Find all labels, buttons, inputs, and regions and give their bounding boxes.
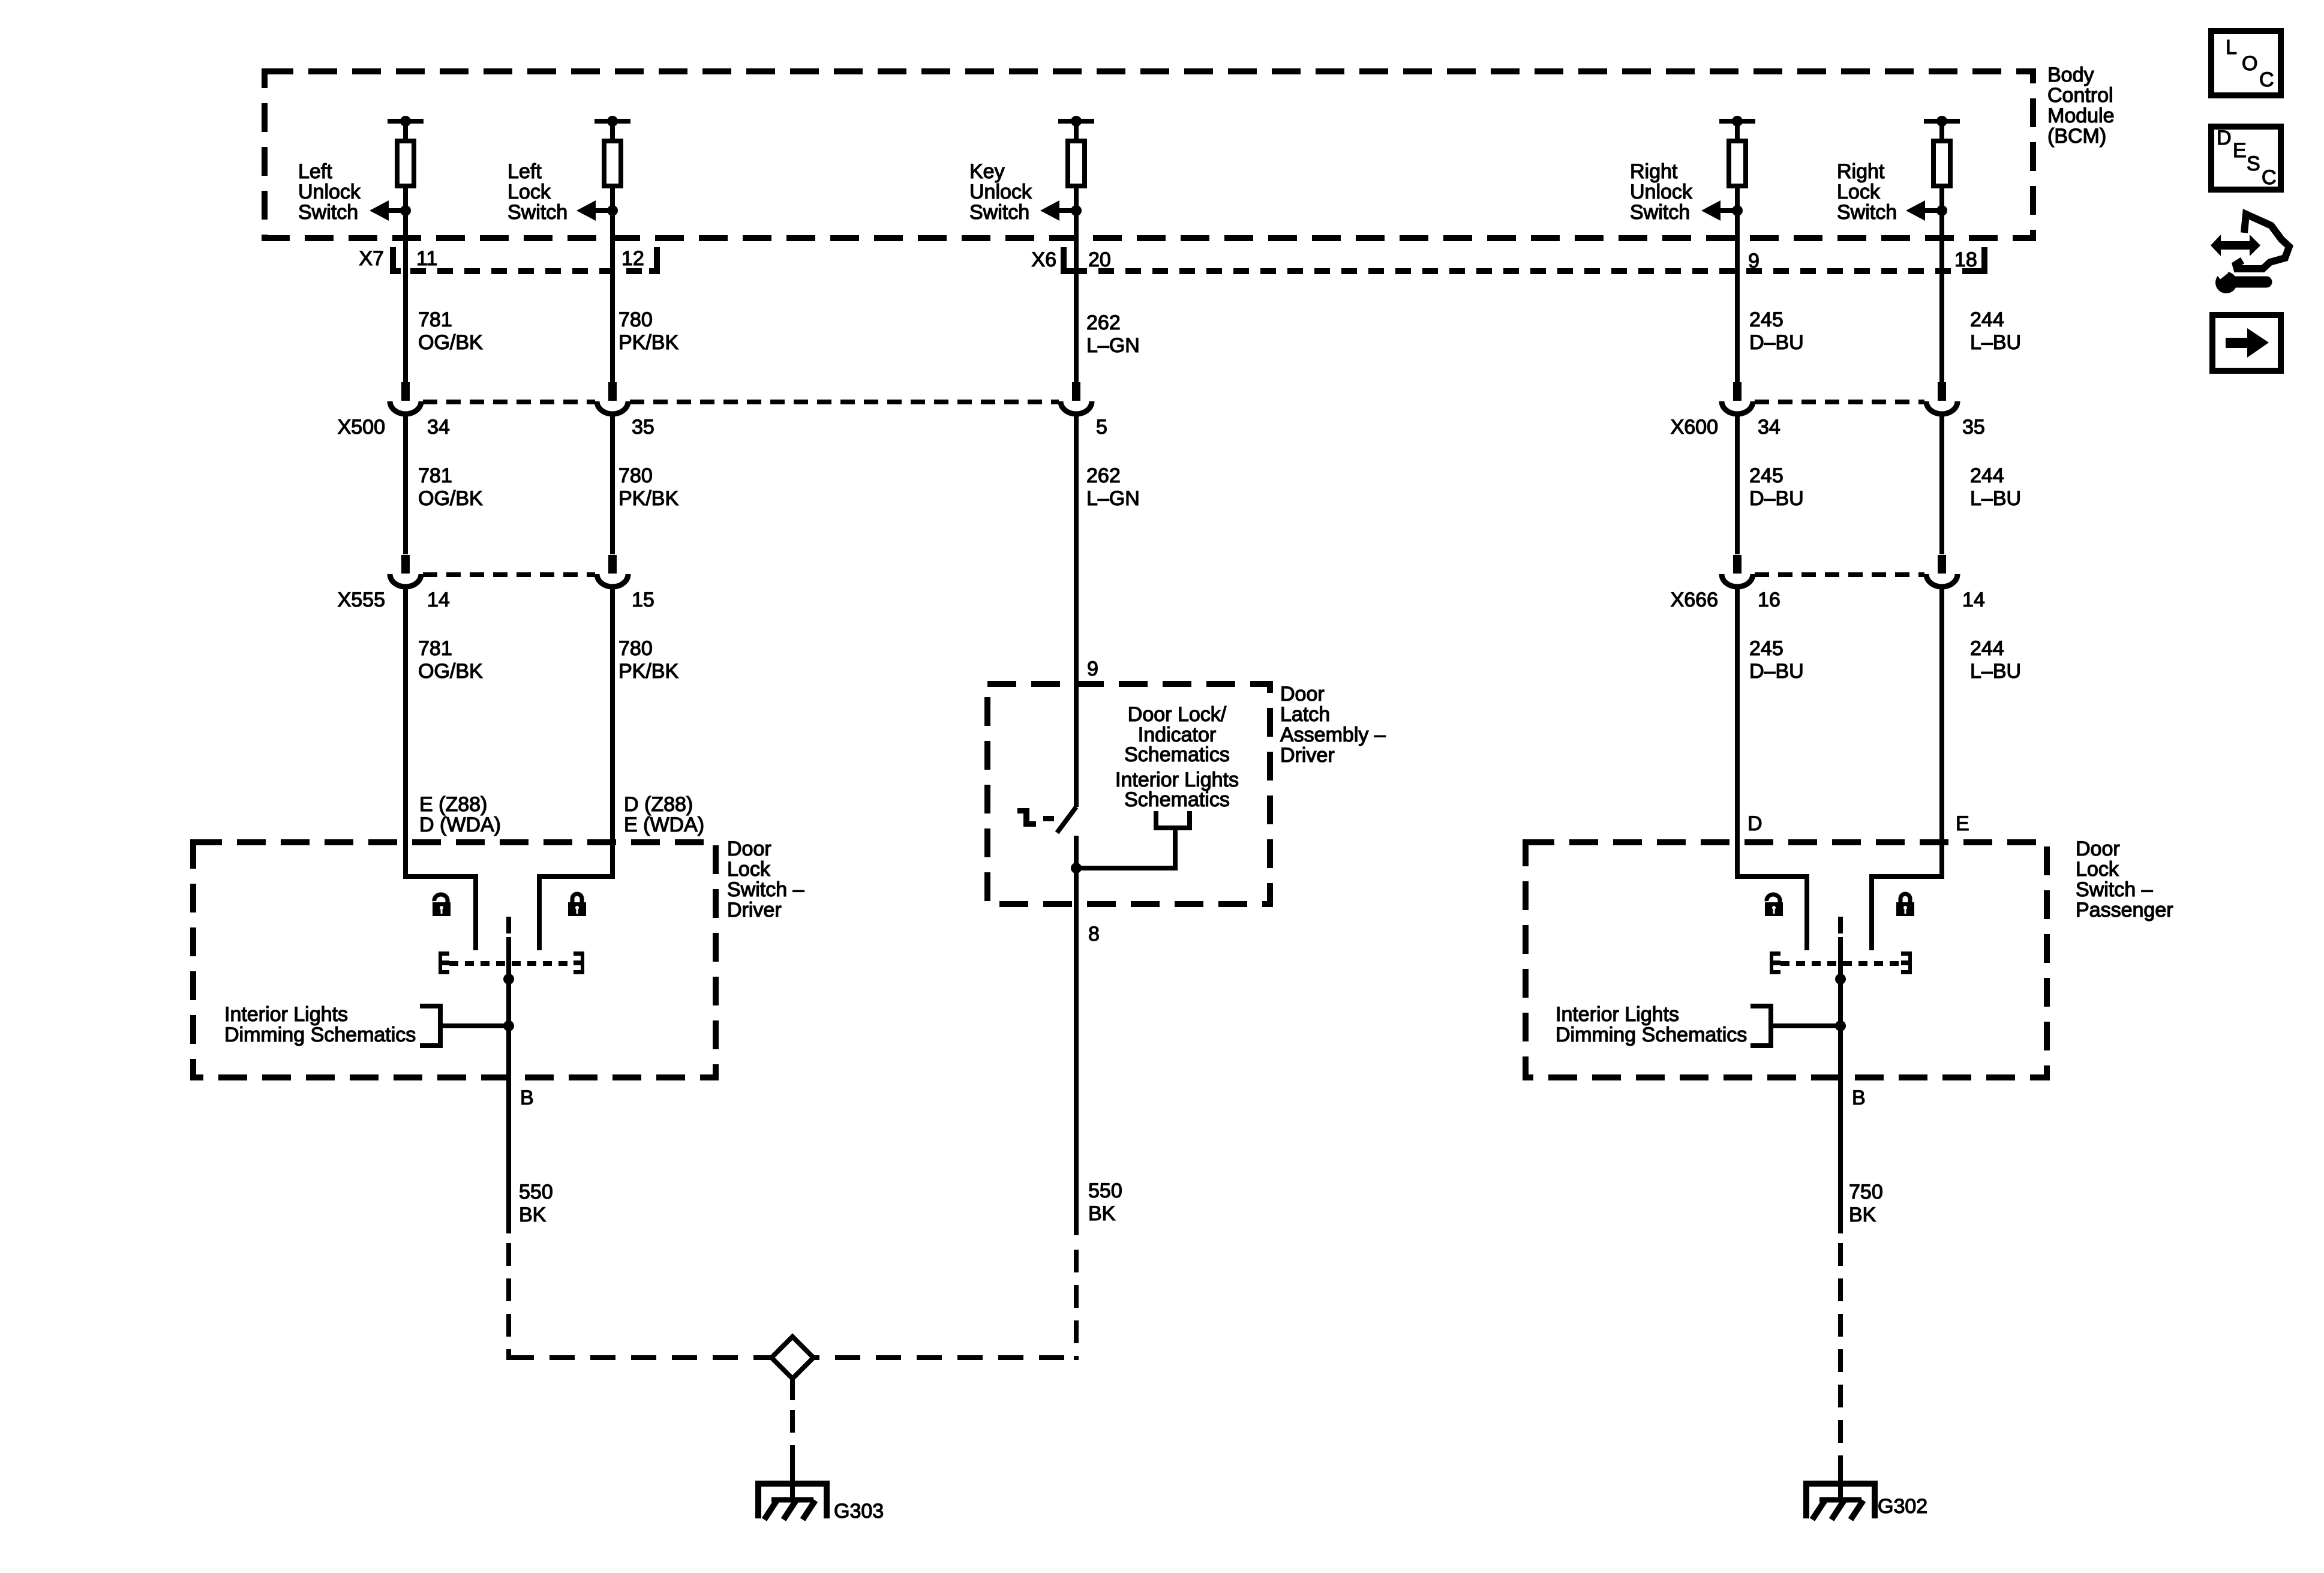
svg-text:Dimming Schematics: Dimming Schematics <box>224 1023 416 1046</box>
svg-text:35: 35 <box>1962 416 1985 439</box>
svg-text:Door: Door <box>2076 837 2120 860</box>
svg-text:Switch: Switch <box>1837 201 1897 224</box>
svg-text:L–BU: L–BU <box>1970 660 2021 683</box>
svg-text:D: D <box>1747 812 1762 835</box>
svg-text:X666: X666 <box>1671 589 1718 611</box>
svg-text:245: 245 <box>1749 308 1783 331</box>
svg-text:9: 9 <box>1748 250 1759 272</box>
svg-text:Switch –: Switch – <box>727 878 804 901</box>
svg-text:35: 35 <box>632 416 654 439</box>
svg-text:D: D <box>2217 127 2232 149</box>
svg-text:B: B <box>1852 1086 1866 1109</box>
svg-text:L: L <box>2226 36 2237 59</box>
svg-text:O: O <box>2242 52 2257 75</box>
svg-text:262: 262 <box>1086 311 1121 334</box>
svg-text:550: 550 <box>519 1181 553 1203</box>
svg-text:Door: Door <box>1280 683 1325 706</box>
svg-text:Assembly –: Assembly – <box>1280 724 1386 746</box>
svg-text:E: E <box>1956 812 1969 835</box>
svg-text:12: 12 <box>621 247 644 270</box>
svg-text:Body: Body <box>2047 64 2094 86</box>
svg-text:L–GN: L–GN <box>1086 334 1140 357</box>
svg-text:D (Z88): D (Z88) <box>624 793 693 816</box>
svg-text:750: 750 <box>1849 1181 1883 1203</box>
svg-text:Right: Right <box>1630 160 1678 183</box>
svg-text:9: 9 <box>1087 658 1098 680</box>
svg-text:781: 781 <box>418 308 452 331</box>
svg-text:PK/BK: PK/BK <box>618 331 678 354</box>
svg-text:262: 262 <box>1086 464 1121 487</box>
svg-text:(BCM): (BCM) <box>2047 125 2106 148</box>
svg-text:Driver: Driver <box>727 899 782 921</box>
svg-text:15: 15 <box>632 589 654 611</box>
svg-text:D–BU: D–BU <box>1749 660 1804 683</box>
svg-text:X555: X555 <box>338 589 385 611</box>
svg-text:780: 780 <box>618 637 653 660</box>
svg-text:E: E <box>2233 139 2247 162</box>
svg-text:Control: Control <box>2047 84 2113 107</box>
svg-text:780: 780 <box>618 308 653 331</box>
svg-text:Lock: Lock <box>1837 181 1881 203</box>
svg-text:Lock: Lock <box>727 858 771 881</box>
svg-text:245: 245 <box>1749 464 1783 487</box>
svg-text:D (WDA): D (WDA) <box>419 813 501 836</box>
svg-text:244: 244 <box>1970 308 2004 331</box>
svg-text:D–BU: D–BU <box>1749 331 1804 354</box>
svg-text:Latch: Latch <box>1280 703 1330 726</box>
svg-text:Switch: Switch <box>298 201 358 224</box>
svg-text:OG/BK: OG/BK <box>418 487 483 510</box>
svg-text:G302: G302 <box>1878 1495 1927 1518</box>
svg-text:Key: Key <box>969 160 1005 183</box>
svg-text:34: 34 <box>427 416 450 439</box>
svg-text:Driver: Driver <box>1280 744 1335 767</box>
svg-text:G303: G303 <box>834 1500 884 1523</box>
svg-text:Lock: Lock <box>508 181 551 203</box>
svg-text:781: 781 <box>418 464 452 487</box>
svg-text:14: 14 <box>427 589 450 611</box>
svg-text:B: B <box>520 1086 534 1109</box>
svg-text:L–BU: L–BU <box>1970 487 2021 510</box>
svg-text:245: 245 <box>1749 637 1783 660</box>
svg-text:244: 244 <box>1970 464 2004 487</box>
svg-text:Interior Lights: Interior Lights <box>1556 1003 1679 1026</box>
svg-text:Right: Right <box>1837 160 1885 183</box>
svg-text:Interior Lights: Interior Lights <box>224 1003 348 1026</box>
svg-text:Unlock: Unlock <box>298 181 361 203</box>
svg-text:Door Lock/: Door Lock/ <box>1128 703 1227 726</box>
svg-text:Schematics: Schematics <box>1124 788 1230 811</box>
svg-text:780: 780 <box>618 464 653 487</box>
svg-text:C: C <box>2259 68 2274 91</box>
svg-text:D–BU: D–BU <box>1749 487 1804 510</box>
svg-text:L–GN: L–GN <box>1086 487 1140 510</box>
svg-text:781: 781 <box>418 637 452 660</box>
svg-text:PK/BK: PK/BK <box>618 487 678 510</box>
svg-text:Unlock: Unlock <box>1630 181 1693 203</box>
svg-text:Left: Left <box>298 160 332 183</box>
svg-text:244: 244 <box>1970 637 2004 660</box>
svg-text:L–BU: L–BU <box>1970 331 2021 354</box>
svg-text:Switch: Switch <box>508 201 568 224</box>
svg-text:X6: X6 <box>1031 248 1056 271</box>
svg-text:OG/BK: OG/BK <box>418 331 483 354</box>
svg-text:BK: BK <box>1088 1202 1116 1225</box>
svg-text:PK/BK: PK/BK <box>618 660 678 683</box>
svg-text:S: S <box>2247 152 2260 175</box>
svg-text:Switch: Switch <box>1630 201 1690 224</box>
svg-text:X7: X7 <box>359 247 384 270</box>
svg-text:5: 5 <box>1096 416 1107 439</box>
svg-text:14: 14 <box>1962 589 1985 611</box>
svg-text:C: C <box>2262 166 2277 189</box>
svg-text:X500: X500 <box>338 416 385 439</box>
svg-text:Schematics: Schematics <box>1124 743 1230 766</box>
svg-text:Module: Module <box>2047 104 2115 127</box>
svg-text:OG/BK: OG/BK <box>418 660 483 683</box>
svg-text:34: 34 <box>1758 416 1780 439</box>
svg-text:Left: Left <box>508 160 542 183</box>
svg-text:8: 8 <box>1088 923 1100 945</box>
svg-text:X600: X600 <box>1671 416 1718 439</box>
svg-text:Dimming Schematics: Dimming Schematics <box>1556 1023 1747 1046</box>
svg-text:BK: BK <box>1849 1203 1876 1226</box>
svg-text:16: 16 <box>1758 589 1780 611</box>
svg-text:Switch –: Switch – <box>2076 878 2153 901</box>
svg-text:Switch: Switch <box>969 201 1029 224</box>
svg-text:Door: Door <box>727 837 771 860</box>
svg-text:E (WDA): E (WDA) <box>624 813 704 836</box>
svg-text:E (Z88): E (Z88) <box>419 793 487 816</box>
svg-text:18: 18 <box>1954 248 1977 271</box>
svg-text:Unlock: Unlock <box>969 181 1032 203</box>
svg-text:11: 11 <box>416 247 437 270</box>
svg-text:20: 20 <box>1088 248 1111 271</box>
svg-text:Lock: Lock <box>2076 858 2119 881</box>
svg-text:BK: BK <box>519 1203 547 1226</box>
svg-text:Passenger: Passenger <box>2076 899 2173 921</box>
svg-text:550: 550 <box>1088 1179 1122 1202</box>
